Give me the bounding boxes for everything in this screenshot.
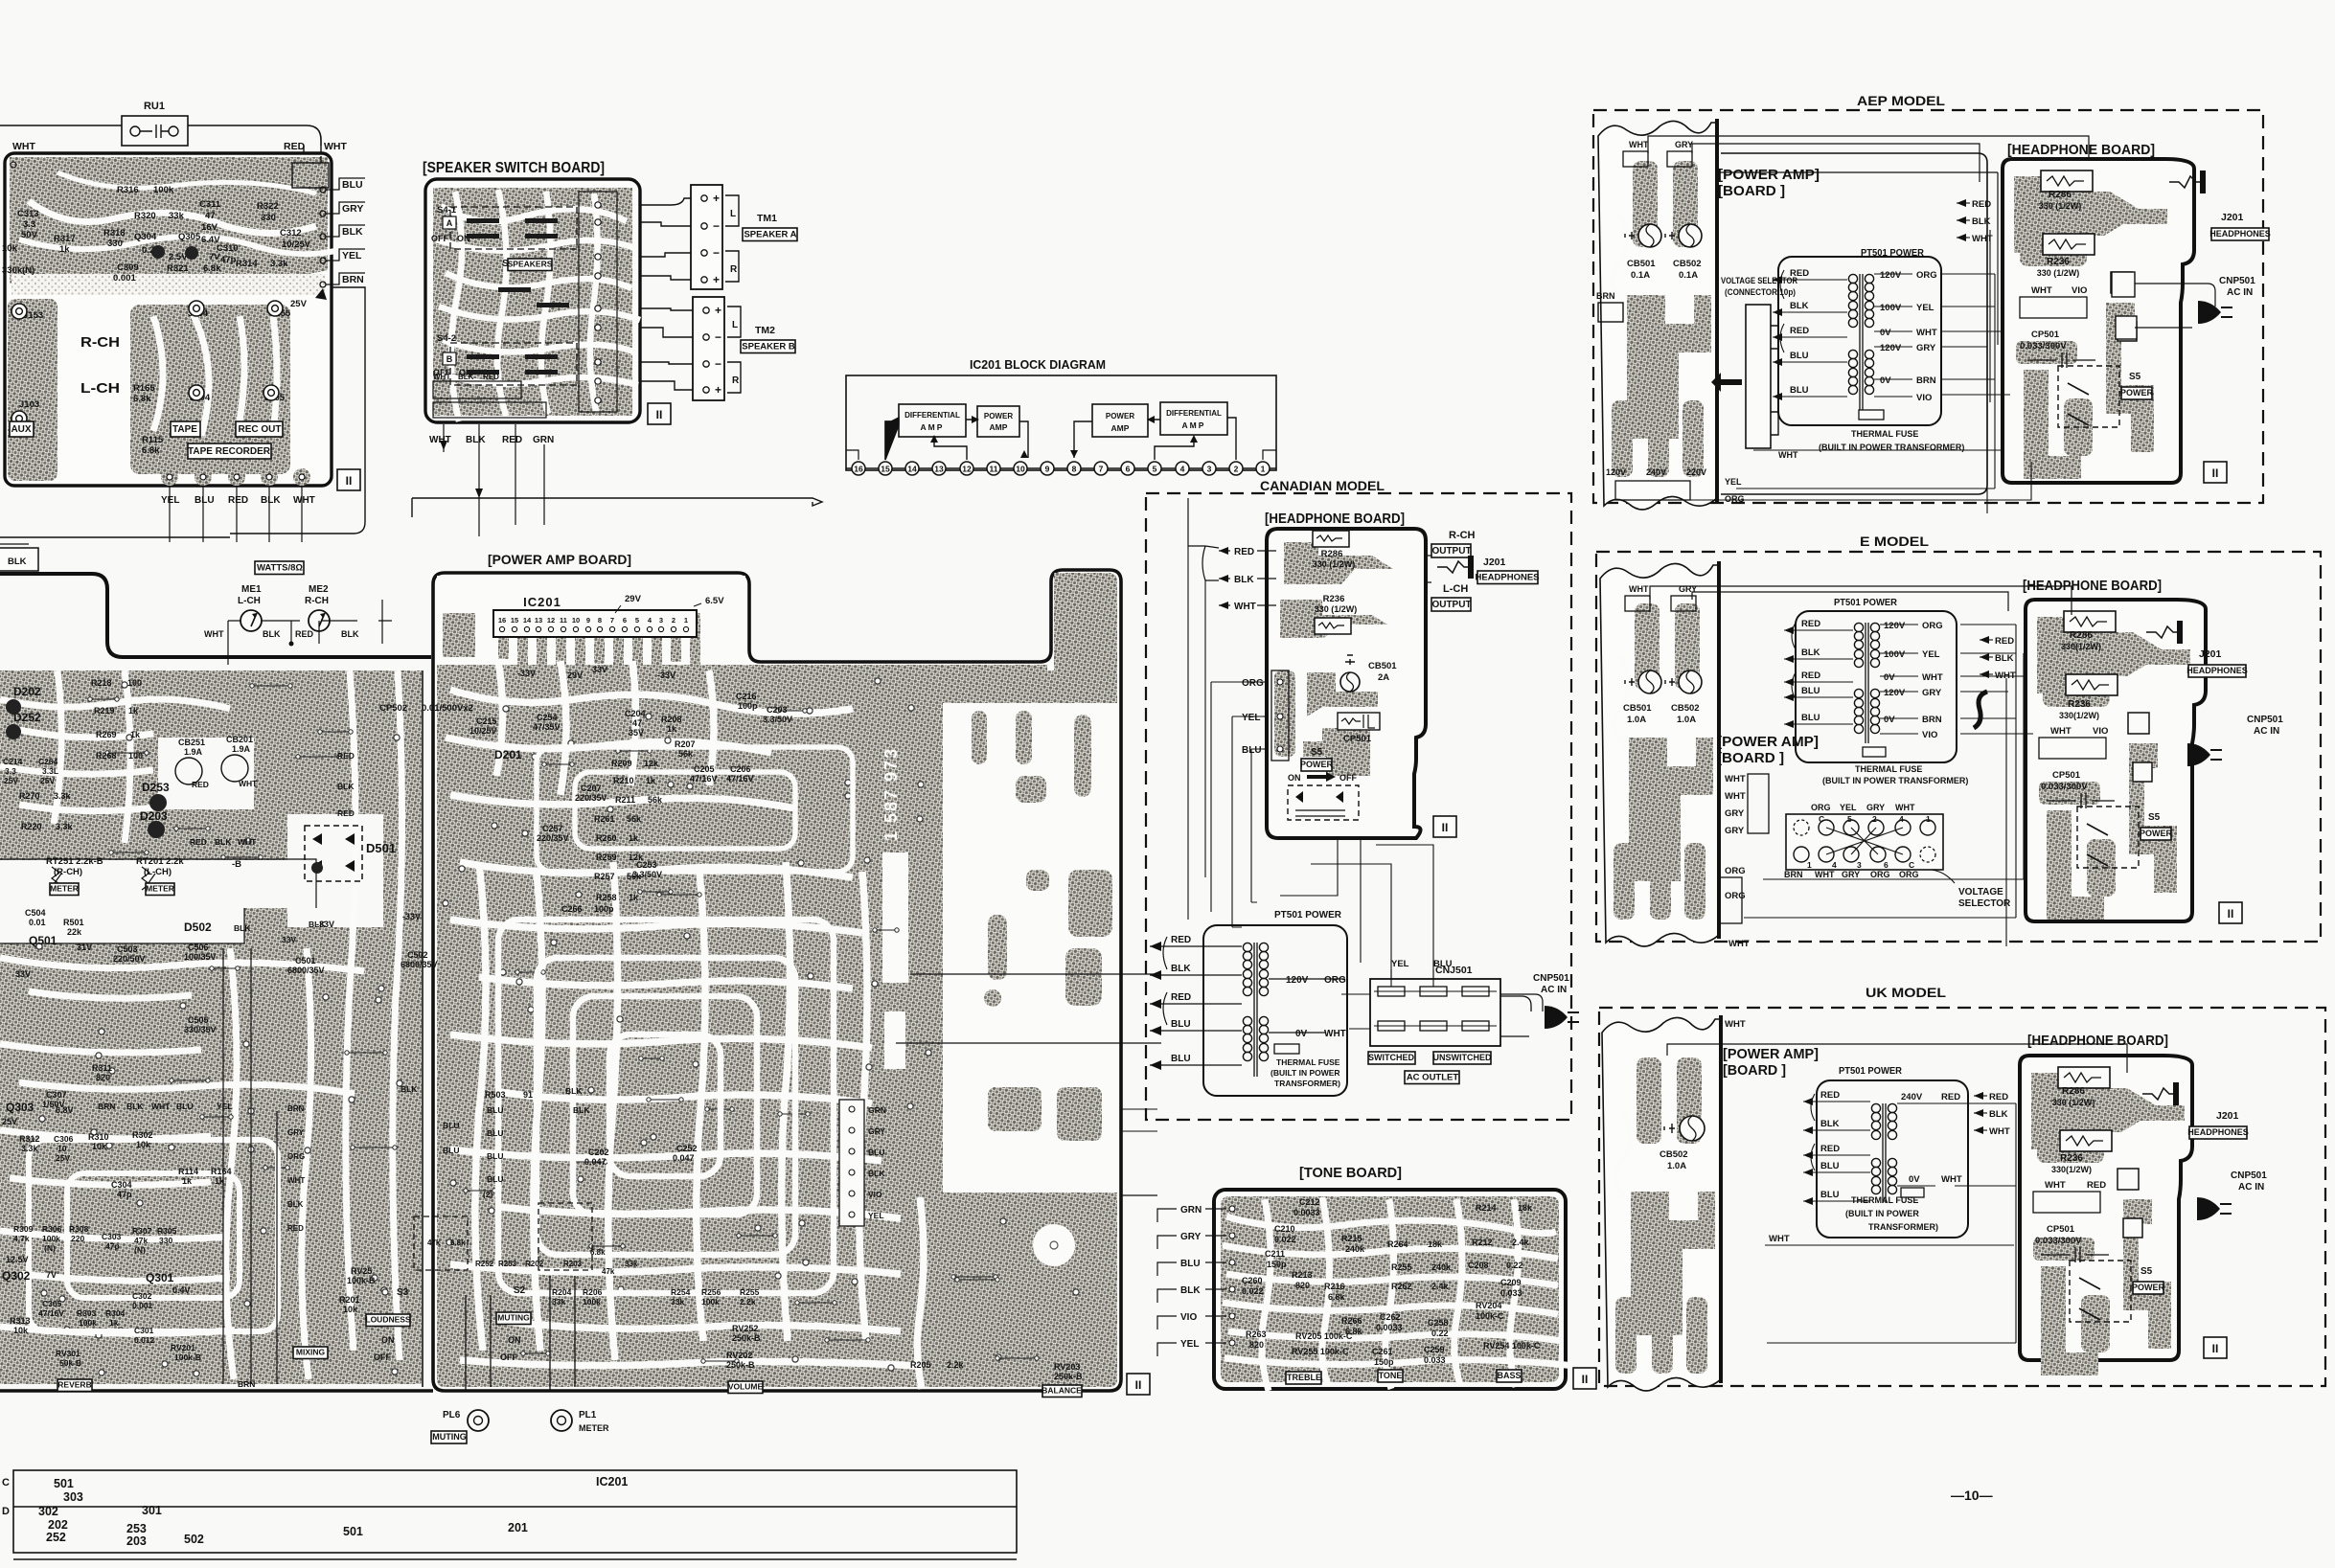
net YEL (320, 258, 326, 263)
svg-text:POWER: POWER (2120, 388, 2154, 398)
svg-text:RV25: RV25 (351, 1266, 372, 1276)
svg-text:56k: 56k (678, 749, 694, 759)
svg-text:MUTING: MUTING (497, 1313, 530, 1323)
svg-text:ORG: ORG (1916, 270, 1937, 281)
svg-text:WHT: WHT (204, 629, 224, 639)
svg-text:12k: 12k (644, 759, 659, 768)
svg-text:R266: R266 (1341, 1316, 1362, 1326)
svg-text:VIO: VIO (2093, 726, 2108, 737)
svg-text:2.2k: 2.2k (740, 1297, 756, 1307)
svg-text:OFF: OFF (500, 1352, 517, 1362)
svg-text:SELECTOR: SELECTOR (1958, 898, 2011, 909)
svg-text:BLU: BLU (1801, 686, 1820, 696)
svg-text:HEADPHONES: HEADPHONES (1475, 573, 1539, 583)
svg-text:BLU: BLU (443, 1146, 459, 1155)
svg-text:BLK: BLK (1790, 301, 1809, 311)
svg-text:25V: 25V (2, 1117, 17, 1126)
svg-text:R317: R317 (54, 234, 76, 244)
pads small rects (AEP headphone board) (2112, 272, 2135, 297)
svg-text:CP501: CP501 (2031, 330, 2060, 340)
label REC OUT (236, 421, 283, 437)
svg-text:100k: 100k (79, 1318, 97, 1328)
svg-text:1.9A: 1.9A (184, 747, 203, 757)
svg-text:WHT: WHT (1922, 672, 1943, 683)
svg-text:C260: C260 (1242, 1276, 1263, 1285)
svg-text:RED: RED (1790, 268, 1809, 279)
svg-text:BRN: BRN (1922, 715, 1942, 725)
component lead segments (88, 684, 1039, 1363)
svg-text:RED: RED (337, 751, 355, 761)
svg-text:BLK: BLK (1180, 1285, 1201, 1296)
svg-text:3: 3 (659, 616, 663, 625)
svg-text:R202: R202 (525, 1260, 544, 1268)
svg-text:WHT: WHT (324, 141, 347, 152)
svg-text:13: 13 (535, 616, 542, 625)
svg-text:25V: 25V (56, 1153, 70, 1163)
svg-text:0.01/500Vx2: 0.01/500Vx2 (422, 703, 473, 714)
svg-text:6: 6 (1884, 860, 1889, 870)
svg-text:BLK: BLK (342, 226, 363, 238)
thick harness wire upper left (0, 574, 431, 657)
svg-text:(N): (N) (44, 1243, 56, 1253)
svg-text:R255: R255 (740, 1287, 760, 1297)
svg-text:YEL: YEL (1725, 477, 1742, 487)
svg-text:VIO: VIO (868, 1190, 882, 1199)
svg-text:WHT: WHT (293, 495, 315, 506)
svg-text:330 (1/2W): 330 (1/2W) (2039, 201, 2082, 211)
svg-text:WHT: WHT (2045, 1180, 2066, 1191)
svg-text:ON: ON (381, 1335, 395, 1345)
svg-text:WHT: WHT (1941, 1174, 1962, 1185)
svg-text:[SPEAKER SWITCH BOARD]: [SPEAKER SWITCH BOARD] (423, 160, 605, 176)
svg-text:BLU: BLU (487, 1128, 503, 1138)
resistor RU1 (122, 101, 188, 146)
AEP dashed box (1593, 110, 2263, 503)
svg-text:II: II (656, 408, 663, 421)
svg-text:0V: 0V (1880, 375, 1891, 386)
svg-text:-33V: -33V (657, 670, 675, 680)
bottom parts table (13, 1470, 1017, 1553)
svg-text:BLK: BLK (1801, 648, 1820, 658)
svg-text:DIFFERENTIAL: DIFFERENTIAL (904, 411, 960, 420)
svg-text:+: + (713, 192, 720, 205)
white trace channels (upper board) (29, 201, 316, 234)
svg-text:RV201: RV201 (171, 1343, 195, 1352)
svg-text:0.033: 0.033 (1424, 1355, 1446, 1365)
svg-text:0.047: 0.047 (584, 1157, 607, 1167)
svg-text:WHT: WHT (1815, 870, 1835, 879)
svg-text:6.5V: 6.5V (705, 596, 724, 606)
svg-text:BRN: BRN (1596, 291, 1615, 301)
svg-text:J201: J201 (1483, 557, 1506, 568)
foil mass lower-left strip (8, 299, 57, 481)
svg-text:POWER: POWER (2140, 829, 2173, 838)
svg-text:C254: C254 (537, 713, 558, 722)
headphone board outline (canadian) (1267, 529, 1426, 838)
svg-text:[POWER AMP]: [POWER AMP] (1717, 734, 1819, 750)
D501 bridge dashed box (305, 826, 362, 881)
svg-text:AMP: AMP (921, 422, 945, 432)
svg-text:WHT: WHT (1778, 450, 1798, 460)
svg-text:1: 1 (1261, 465, 1266, 474)
svg-text:BLU: BLU (443, 1121, 459, 1130)
svg-text:203: 203 (126, 1534, 147, 1548)
block differential amp R (1160, 402, 1227, 435)
svg-text:BLU: BLU (868, 1148, 884, 1157)
svg-text:330 (1/2W): 330 (1/2W) (1315, 604, 1358, 614)
svg-text:RV205 100k-C: RV205 100k-C (1295, 1331, 1353, 1341)
svg-text:10: 10 (572, 616, 580, 625)
svg-text:C204: C204 (625, 709, 646, 718)
svg-text:16: 16 (854, 465, 863, 474)
svg-text:D203: D203 (140, 809, 168, 823)
svg-text:POWER: POWER (2132, 1283, 2165, 1292)
svg-text:GRY: GRY (868, 1126, 885, 1136)
svg-text:BLK: BLK (234, 923, 251, 933)
svg-text:8: 8 (1072, 465, 1077, 474)
svg-text:CB501: CB501 (1623, 703, 1652, 714)
svg-text:RED: RED (1801, 670, 1820, 681)
svg-text:56k: 56k (627, 814, 642, 824)
svg-text:10k: 10k (343, 1305, 358, 1314)
foil patches (canadian headphone board) (1284, 542, 1393, 584)
svg-text:C261: C261 (1372, 1347, 1393, 1356)
svg-text:0V: 0V (1295, 1029, 1308, 1039)
svg-text:252: 252 (46, 1531, 66, 1544)
svg-text:R207: R207 (675, 739, 696, 749)
svg-text:WHT: WHT (1725, 774, 1746, 784)
svg-text:A: A (446, 218, 453, 228)
svg-text:BLK: BLK (126, 1102, 144, 1111)
svg-text:820: 820 (96, 1073, 110, 1082)
svg-text:LOUDNESS: LOUDNESS (365, 1315, 411, 1325)
svg-text:ORG: ORG (1811, 803, 1831, 812)
net BRN (320, 282, 326, 287)
svg-text:C214: C214 (3, 757, 23, 766)
svg-text:C502: C502 (407, 950, 428, 960)
svg-text:GRY: GRY (1866, 803, 1885, 812)
svg-text:4: 4 (1899, 814, 1904, 824)
svg-text:METER: METER (146, 884, 174, 894)
fuse circles CB251 CB201 (175, 758, 202, 784)
svg-text:II: II (1135, 1378, 1142, 1392)
svg-text:330k(N): 330k(N) (2, 265, 34, 276)
svg-text:VIO: VIO (1180, 1312, 1197, 1323)
svg-text:GRY: GRY (1675, 140, 1693, 149)
svg-text:6: 6 (623, 616, 627, 625)
svg-text:R316: R316 (117, 185, 139, 195)
svg-text:330(1/2W): 330(1/2W) (2051, 1165, 2092, 1174)
svg-text:7: 7 (1099, 465, 1104, 474)
svg-text:BLU: BLU (1820, 1161, 1840, 1171)
svg-text:R208: R208 (661, 715, 682, 724)
svg-text:WHT: WHT (2031, 285, 2052, 296)
svg-text:UK MODEL: UK MODEL (1866, 985, 1946, 1000)
svg-text:R256: R256 (701, 1287, 721, 1297)
op-amp block differential amp L (899, 404, 966, 437)
svg-text:1k: 1k (629, 893, 639, 902)
svg-text:BLK: BLK (309, 920, 326, 929)
svg-text:RED: RED (2087, 1180, 2106, 1191)
svg-text:C313: C313 (17, 209, 39, 219)
svg-text:240V: 240V (1901, 1092, 1923, 1102)
net BLK (320, 234, 326, 239)
label SPEAKER A (743, 228, 797, 241)
svg-text:1: 1 (1807, 860, 1812, 870)
svg-text:C257: C257 (542, 824, 563, 833)
svg-text:201: 201 (508, 1521, 528, 1534)
svg-text:C501: C501 (295, 956, 316, 966)
svg-text:PT501 POWER: PT501 POWER (1834, 597, 1897, 608)
svg-text:D201: D201 (494, 748, 522, 761)
svg-text:WHT: WHT (1725, 1019, 1746, 1030)
svg-text:RED: RED (1801, 619, 1820, 629)
svg-text:0.1A: 0.1A (1631, 270, 1650, 281)
svg-text:REC OUT: REC OUT (239, 424, 282, 435)
svg-text:47p: 47p (105, 1241, 120, 1251)
speaker switch board outline (425, 179, 640, 422)
terminal TM2 (693, 297, 724, 400)
boxed labels power area (50, 883, 79, 896)
svg-text:DIFFERENTIAL: DIFFERENTIAL (1166, 409, 1222, 418)
svg-text:R164: R164 (211, 1167, 232, 1176)
svg-text:0.01: 0.01 (29, 918, 46, 927)
svg-text:5: 5 (1847, 814, 1852, 824)
svg-text:4.7k: 4.7k (13, 1234, 30, 1243)
svg-text:C: C (1819, 814, 1824, 824)
svg-text:RED: RED (190, 837, 207, 847)
svg-text:BLU: BLU (487, 1151, 503, 1161)
svg-text:3.3L: 3.3L (42, 766, 58, 776)
svg-text:E MODEL: E MODEL (1860, 534, 1930, 549)
svg-text:CNP501: CNP501 (2219, 276, 2255, 286)
svg-text:TAPE RECORDER: TAPE RECORDER (188, 446, 271, 457)
svg-text:II: II (1582, 1373, 1589, 1386)
svg-text:120V: 120V (1880, 343, 1902, 353)
svg-text:CANADIAN MODEL: CANADIAN MODEL (1260, 479, 1385, 493)
svg-text:CP501: CP501 (2047, 1224, 2075, 1235)
svg-text:C311: C311 (199, 199, 221, 210)
svg-text:2A: 2A (1378, 672, 1389, 683)
svg-text:CB501: CB501 (1368, 661, 1397, 671)
svg-text:10/25V: 10/25V (282, 239, 311, 250)
svg-text:GRY: GRY (1916, 343, 1936, 353)
svg-text:100k: 100k (701, 1297, 720, 1307)
svg-text:C216: C216 (736, 692, 757, 701)
svg-text:100k: 100k (583, 1297, 601, 1307)
svg-text:3.3: 3.3 (23, 219, 35, 230)
svg-text:47p: 47p (220, 255, 237, 265)
svg-text:VIO: VIO (2072, 285, 2087, 296)
svg-text:GRY: GRY (1725, 808, 1745, 819)
svg-text:0V: 0V (1884, 672, 1895, 683)
IC201 chip (493, 610, 697, 637)
svg-text:C212: C212 (1299, 1197, 1320, 1207)
svg-text:5: 5 (635, 616, 639, 625)
svg-text:OUTPUT: OUTPUT (1431, 546, 1471, 557)
svg-text:+: + (713, 273, 720, 286)
circuit breaker CB502 (UK) (1680, 1116, 1705, 1141)
svg-text:GRN: GRN (1180, 1205, 1202, 1216)
svg-text:R321: R321 (167, 263, 189, 274)
svg-text:J201: J201 (2216, 1110, 2239, 1122)
svg-text:C252: C252 (676, 1144, 698, 1153)
svg-text:(BUILT IN POWER: (BUILT IN POWER (1845, 1209, 1919, 1218)
dashed switch S4-2 (450, 343, 577, 385)
svg-text:GRY: GRY (342, 203, 363, 215)
svg-text:BALANCE: BALANCE (1042, 1386, 1082, 1396)
svg-text:POWER: POWER (984, 412, 1013, 420)
svg-text:+: + (715, 383, 721, 397)
svg-text:330 (1/2W): 330 (1/2W) (2052, 1098, 2095, 1107)
nested loops upper power amp (537, 747, 853, 872)
svg-text:120V: 120V (1286, 975, 1309, 986)
UK wires (1667, 1044, 2127, 1073)
label AUX (10, 421, 34, 437)
SWITCHED / UNSWITCHED / AC OUTLET (1368, 1052, 1415, 1064)
svg-text:18k: 18k (1518, 1203, 1533, 1213)
svg-text:B: B (446, 354, 453, 364)
svg-text:303: 303 (63, 1490, 83, 1504)
svg-text:1.0A: 1.0A (1677, 715, 1696, 725)
svg-text:202: 202 (48, 1518, 68, 1532)
svg-text:C307: C307 (46, 1090, 67, 1100)
svg-text:10k: 10k (2, 243, 18, 254)
svg-text:33k: 33k (552, 1297, 565, 1307)
svg-text:−: − (713, 246, 720, 260)
svg-text:II: II (2212, 466, 2219, 480)
svg-text:C304: C304 (111, 1180, 132, 1190)
svg-text:AMP: AMP (990, 422, 1008, 432)
svg-text:1.9A: 1.9A (232, 744, 251, 754)
svg-text:2.4k: 2.4k (1512, 1238, 1530, 1247)
svg-text:RV252: RV252 (732, 1324, 758, 1333)
svg-text:TAPE: TAPE (172, 424, 197, 435)
svg-text:R318: R318 (103, 228, 126, 239)
svg-text:R310: R310 (88, 1132, 109, 1142)
svg-text:R261: R261 (594, 814, 615, 824)
svg-text:C203: C203 (767, 705, 788, 715)
svg-text:TRANSFORMER): TRANSFORMER) (1868, 1222, 1938, 1232)
svg-text:[POWER AMP]: [POWER AMP] (1718, 167, 1820, 183)
svg-text:BLK: BLK (215, 837, 232, 847)
svg-text:330(1/2W): 330(1/2W) (2061, 642, 2101, 651)
svg-text:GRN: GRN (868, 1105, 886, 1115)
svg-text:4: 4 (1832, 860, 1837, 870)
svg-text:RV204: RV204 (1476, 1301, 1501, 1310)
svg-text:8: 8 (598, 616, 602, 625)
svg-text:R204: R204 (552, 1287, 572, 1297)
svg-text:100: 100 (127, 678, 142, 688)
svg-text:R264: R264 (1387, 1239, 1408, 1249)
svg-text:J201: J201 (2221, 212, 2244, 223)
svg-text:Q302: Q302 (2, 1269, 31, 1283)
svg-text:0.1A: 0.1A (1679, 270, 1698, 281)
outer wrapper right edge (230, 156, 365, 534)
svg-text:AC IN: AC IN (2227, 287, 2253, 298)
svg-text:820: 820 (1249, 1340, 1264, 1350)
svg-text:YEL: YEL (1916, 303, 1934, 313)
diodes D202/D252 etc (6, 699, 21, 715)
svg-text:0.0033: 0.0033 (1293, 1208, 1320, 1217)
svg-text:S2: S2 (514, 1285, 526, 1296)
svg-text:330: 330 (159, 1236, 172, 1245)
foil mass lower-center patch (130, 305, 290, 474)
svg-text:ME2: ME2 (309, 584, 329, 595)
svg-text:L-CH: L-CH (80, 380, 120, 397)
svg-text:L-CH: L-CH (238, 596, 261, 606)
svg-text:10k: 10k (13, 1326, 29, 1335)
curly phone wire mark (1974, 692, 1987, 728)
svg-text:RV202: RV202 (726, 1351, 752, 1360)
svg-text:S4-1: S4-1 (437, 205, 457, 216)
IC201 tab white area (437, 576, 745, 659)
svg-text:AEP MODEL: AEP MODEL (1857, 93, 1945, 108)
svg-text:WHT: WHT (433, 373, 450, 381)
svg-text:WHT: WHT (151, 1102, 171, 1111)
svg-text:1k: 1k (109, 1318, 119, 1328)
svg-text:HEADPHONES: HEADPHONES (2187, 1127, 2249, 1137)
svg-text:R: R (732, 375, 740, 386)
svg-text:Q301: Q301 (146, 1271, 174, 1284)
svg-text:100: 100 (128, 751, 143, 761)
connector jacks circles (189, 301, 204, 316)
svg-text:2.4k: 2.4k (1431, 1282, 1450, 1291)
circuit breaker CB502 (1679, 224, 1702, 247)
svg-text:BLK: BLK (1171, 964, 1191, 974)
svg-text:50k-B: 50k-B (59, 1358, 81, 1368)
svg-text:3.3k: 3.3k (56, 822, 74, 831)
svg-text:GRY: GRY (1180, 1232, 1202, 1242)
svg-text:0.012: 0.012 (134, 1335, 155, 1345)
svg-text:11: 11 (990, 465, 998, 474)
svg-text:1.0A: 1.0A (1667, 1161, 1686, 1171)
svg-text:2: 2 (672, 616, 675, 625)
svg-text:R-CH: R-CH (305, 596, 329, 606)
svg-text:47: 47 (205, 211, 216, 221)
svg-text:10: 10 (1016, 465, 1025, 474)
svg-text:10/25V: 10/25V (469, 726, 497, 736)
svg-text:100k-B: 100k-B (174, 1352, 201, 1362)
svg-text:[BOARD ]: [BOARD ] (1723, 1062, 1786, 1079)
svg-text:RV254 100k-C: RV254 100k-C (1483, 1341, 1541, 1351)
svg-text:C504: C504 (25, 908, 46, 918)
svg-text:3.3k: 3.3k (54, 791, 72, 801)
svg-text:CB502: CB502 (1671, 703, 1700, 714)
svg-text:100k-C: 100k-C (1476, 1311, 1504, 1321)
tag II (648, 403, 671, 424)
svg-text:0.022: 0.022 (1274, 1235, 1296, 1244)
svg-text:7: 7 (610, 616, 614, 625)
svg-text:D501: D501 (366, 841, 396, 855)
svg-text:-B: -B (232, 859, 241, 870)
svg-text:BLK: BLK (287, 1200, 304, 1209)
svg-text:VOLUME: VOLUME (728, 1382, 764, 1392)
voltage selector (E) (1786, 814, 1943, 870)
tone board outline (1214, 1190, 1566, 1389)
svg-text:POWER: POWER (1300, 760, 1334, 769)
svg-text:330 (1/2W): 330 (1/2W) (1313, 559, 1356, 569)
svg-text:BLK: BLK (1995, 653, 2014, 664)
svg-text:330 (1/2W): 330 (1/2W) (2037, 268, 2080, 278)
svg-text:330/35V: 330/35V (184, 1025, 217, 1034)
svg-text:TONE: TONE (1379, 1371, 1403, 1380)
scattered solder pads (left mass & power amp board) (36, 678, 1079, 1376)
svg-text:II: II (1442, 821, 1449, 834)
svg-text:AMP: AMP (1111, 423, 1130, 433)
svg-text:RU1: RU1 (144, 101, 165, 112)
nested white trace loops (power amp center) (537, 958, 795, 1255)
